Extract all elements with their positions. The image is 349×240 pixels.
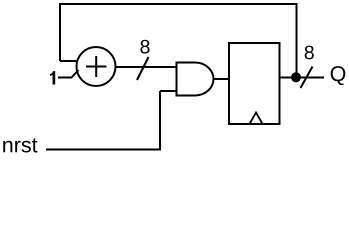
wire feedback right vertical: [296, 3, 298, 78]
adder U1: [77, 47, 116, 86]
wire nrst horizontal: [46, 149, 161, 151]
wire AND to register: [214, 78, 230, 80]
bus slash 8 (adder output): [137, 57, 149, 80]
wire feedback left vertical: [59, 3, 61, 61]
constant 1 label: [50, 71, 55, 84]
bus width label 8: [305, 46, 314, 60]
bus width label 8: [140, 40, 149, 54]
net Q label: [331, 66, 346, 85]
wire adder to AND: [116, 66, 177, 68]
bus slash 8 (register output): [301, 67, 313, 89]
net nrst label: [3, 138, 37, 152]
wire constant 1 to adder: [58, 70, 79, 78]
and-gate U2: [177, 63, 214, 96]
wire register output: [280, 77, 325, 79]
register clock triangle: [250, 113, 263, 125]
junction dot: [291, 72, 301, 82]
wire feedback into adder: [60, 60, 78, 62]
wire nrst vertical: [159, 91, 161, 151]
wire nrst to AND: [160, 90, 176, 92]
wire feedback top: [59, 3, 298, 5]
register U3: [229, 43, 280, 124]
